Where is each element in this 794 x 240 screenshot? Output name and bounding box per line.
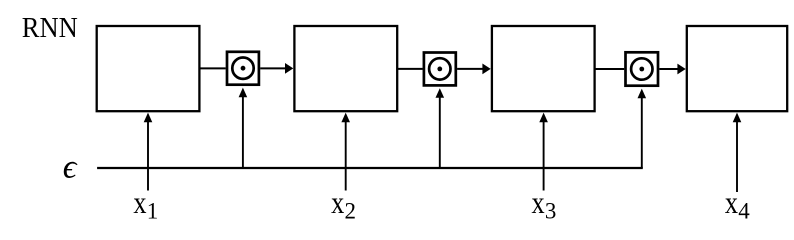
arrow odot1 to box2 [260,63,293,74]
odot operator 3 [626,52,659,85]
svg-text:x: x [331,186,344,221]
noise arrow to odot2 [436,88,445,168]
arrow odot3 to box4 [659,64,685,75]
RNN cell box 4 [687,26,787,111]
odot operator 1 [227,52,259,85]
RNN cell box 1 [97,26,200,111]
RNN cell box 2 [294,26,397,111]
wire box1 to odot1 [200,67,226,69]
input arrow x3 to box3 [539,113,548,191]
svg-text:ϵ: ϵ [63,149,78,186]
svg-text:RNN: RNN [22,12,78,44]
wire box3 to odot3 [595,68,625,70]
svg-text:x: x [725,186,738,221]
svg-text:4: 4 [738,199,750,224]
odot operator 2 [424,53,456,86]
RNN cell box 3 [492,26,595,111]
wire box2 to odot2 [397,68,422,70]
input arrow x1 to box1 [144,113,153,191]
input arrow x2 to box2 [341,113,350,191]
noise arrow to odot1 [239,88,248,168]
epsilon noise line [97,167,643,169]
svg-text:3: 3 [545,199,557,224]
input arrow x4 to box4 [733,113,742,192]
arrow odot2 to box3 [457,64,491,75]
noise arrow to odot3 [638,89,647,168]
svg-text:x: x [133,186,146,221]
svg-text:2: 2 [345,199,357,224]
svg-text:1: 1 [147,199,159,224]
svg-text:x: x [532,186,545,221]
